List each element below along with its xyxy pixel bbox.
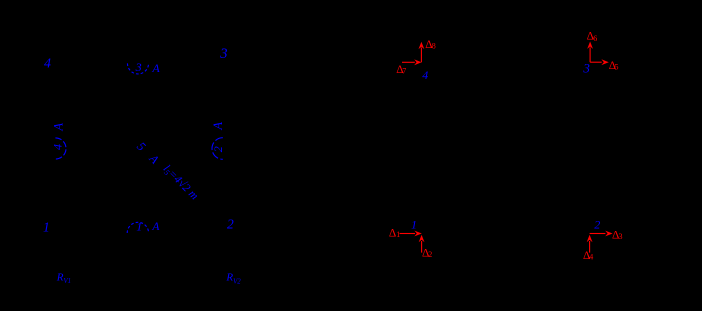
wire: node1 vertical arrow shaft [421, 241, 423, 253]
wire: node2 vertical arrow shaft [589, 241, 591, 253]
svg-text:3: 3 [582, 61, 590, 76]
node4 horizontal arrowhead (right, into corner) [414, 59, 421, 65]
node3 horizontal arrowhead (right, outward) [601, 59, 608, 65]
wire: node3 vertical arrow shaft [589, 47, 591, 62]
member 3 arc (top, dashed lower semicircle) [127, 63, 148, 74]
svg-text:4: 4 [50, 144, 64, 150]
node2 vertical arrowhead (up, into corner) [587, 235, 593, 242]
svg-text:2: 2 [594, 218, 600, 232]
svg-text:2: 2 [211, 146, 225, 152]
svg-text:2: 2 [428, 250, 432, 259]
node1 vertical arrowhead (up, into corner) [419, 235, 425, 242]
svg-text:8: 8 [432, 42, 436, 51]
svg-text:A: A [211, 122, 225, 131]
svg-text:A: A [151, 221, 160, 233]
wire: node4 horizontal arrow shaft [402, 61, 415, 63]
svg-text:4: 4 [422, 68, 428, 82]
member 1 arc (bottom, dashed upper semicircle) [127, 222, 148, 233]
svg-text:A: A [51, 123, 65, 132]
svg-text:A: A [151, 61, 160, 75]
node1 horizontal arrowhead (right, into corner) [414, 231, 421, 237]
member 2 arc (right, dashed left semicircle) [212, 138, 223, 160]
wire: node2 horizontal arrow shaft [590, 233, 606, 235]
svg-text:1: 1 [396, 230, 400, 239]
svg-text:2: 2 [227, 216, 234, 231]
node2 horizontal arrowhead (right, outward) [605, 231, 612, 237]
wire: node3 horizontal arrow shaft [590, 61, 602, 63]
svg-text:1: 1 [411, 218, 417, 232]
svg-text:4: 4 [44, 57, 51, 72]
node3 vertical arrowhead (up) [587, 42, 593, 49]
wire: node4 vertical arrow shaft [420, 48, 422, 63]
member 4 arc (left, dashed right semicircle) [55, 138, 66, 159]
svg-text:4: 4 [589, 253, 593, 262]
svg-text:7: 7 [402, 66, 406, 75]
svg-text:6: 6 [593, 34, 597, 43]
svg-text:3: 3 [219, 46, 227, 62]
wire: node1 horizontal arrow shaft [400, 233, 415, 235]
svg-text:3: 3 [619, 232, 623, 241]
svg-text:5: 5 [615, 62, 619, 71]
svg-text:1: 1 [43, 220, 50, 235]
node4 vertical arrowhead (up) [419, 42, 425, 49]
svg-text:3: 3 [135, 60, 142, 74]
svg-text:Δ: Δ [389, 227, 396, 239]
svg-text:1: 1 [136, 220, 142, 234]
